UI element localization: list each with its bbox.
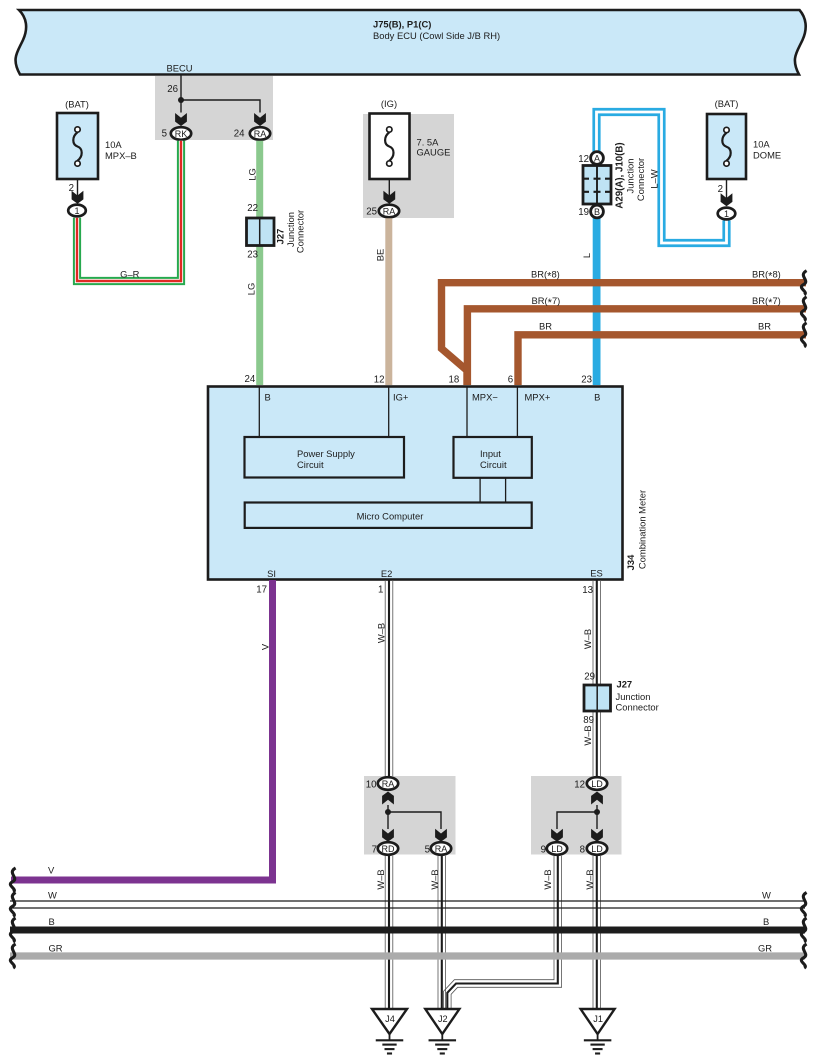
internal wire MPX- to input circuit <box>466 387 468 437</box>
svg-text:24: 24 <box>245 374 256 385</box>
svg-text:89: 89 <box>583 715 594 726</box>
connector shading box left <box>364 776 456 855</box>
svg-text:BE: BE <box>375 249 386 262</box>
svg-text:MPX−: MPX− <box>472 391 498 402</box>
junction dot <box>178 97 184 103</box>
wire G-R from terminal 1 to RK <box>77 141 181 281</box>
svg-text:29: 29 <box>584 672 595 683</box>
break symbol BR(*8) <box>801 271 806 295</box>
ground point J1 <box>581 1009 615 1034</box>
svg-text:B: B <box>594 207 600 217</box>
svg-text:B: B <box>594 391 600 402</box>
svg-text:1: 1 <box>74 206 79 216</box>
wire W-B 8LD to J1 <box>592 856 594 1008</box>
svg-text:(BAT): (BAT) <box>65 99 89 110</box>
wire W-B 5RA to J2 <box>437 856 439 1008</box>
terminal LD pin 9 <box>547 842 567 855</box>
arrow out of LD <box>591 792 603 805</box>
ground symbol J2 <box>441 1034 443 1040</box>
ground point J2 <box>425 1009 459 1034</box>
arrow into RK <box>175 113 187 126</box>
terminal LD pin 12 <box>587 777 607 790</box>
svg-text:1: 1 <box>378 585 383 596</box>
arrow into LD9 <box>551 829 563 842</box>
junction connector A29(A),J10(B) <box>583 166 611 205</box>
internal wires input to micro computer <box>480 478 506 503</box>
internal wire pin24 to power supply <box>258 387 260 437</box>
arrow into LD8 <box>591 829 603 842</box>
connector shading box IG fuse <box>363 114 454 218</box>
svg-text:10: 10 <box>366 779 377 790</box>
svg-text:Input: Input <box>480 448 501 459</box>
wire branch to LD pin9 <box>557 812 597 829</box>
svg-text:W–B: W–B <box>429 869 440 889</box>
wire L-W loop <box>597 112 727 243</box>
arrow into RA <box>254 113 266 126</box>
svg-text:Combination Meter: Combination Meter <box>637 490 648 569</box>
svg-text:LD: LD <box>591 779 603 789</box>
svg-text:22: 22 <box>247 203 258 214</box>
svg-text:J27: J27 <box>275 229 286 245</box>
svg-text:J75(B), P1(C): J75(B), P1(C) <box>373 19 431 30</box>
bus wire B <box>10 927 805 934</box>
terminal A pin 12 <box>591 152 604 165</box>
svg-text:W: W <box>762 890 771 901</box>
ground point J4 <box>372 1009 407 1034</box>
terminal 1 <box>68 205 86 217</box>
svg-text:Body ECU (Cowl Side J/B RH): Body ECU (Cowl Side J/B RH) <box>373 30 500 41</box>
svg-text:SI: SI <box>267 568 276 579</box>
arrow into terminal 1 <box>72 191 84 204</box>
svg-text:23: 23 <box>247 250 258 261</box>
svg-text:LD: LD <box>551 844 563 854</box>
wire branch to RA <box>181 100 260 113</box>
break symbol BR(*7) <box>801 297 806 321</box>
terminal B pin 19 <box>591 205 604 218</box>
svg-text:ES: ES <box>590 568 603 579</box>
svg-text:LG: LG <box>246 283 257 296</box>
svg-text:Connector: Connector <box>635 158 646 201</box>
arrow into RD <box>382 829 394 842</box>
svg-text:7: 7 <box>372 844 377 855</box>
connector shading box right <box>531 776 622 855</box>
wire W-B 9LD jog to J2 <box>444 856 555 1009</box>
arrow into RA5 <box>435 829 447 842</box>
fuse pin 2 lead <box>726 179 728 199</box>
svg-text:12: 12 <box>578 154 589 165</box>
svg-text:LG: LG <box>247 168 258 181</box>
svg-text:10A: 10A <box>105 139 122 150</box>
bus wire GR <box>10 952 805 959</box>
arrow into RA pin 25 <box>383 191 395 204</box>
fuse lead to RA <box>388 179 390 197</box>
terminal RA pin 24 <box>250 127 270 140</box>
bus wire W <box>10 900 805 902</box>
svg-text:J4: J4 <box>385 1014 395 1024</box>
svg-text:2: 2 <box>718 184 723 195</box>
svg-text:W–B: W–B <box>375 869 386 889</box>
svg-text:B: B <box>763 916 769 927</box>
svg-text:J27: J27 <box>617 679 633 690</box>
svg-text:17: 17 <box>256 585 267 596</box>
svg-text:BR: BR <box>539 321 552 332</box>
junction connector J27 (top) <box>247 218 275 246</box>
terminal RA pin 5 <box>431 842 451 855</box>
wire BR(*7) <box>467 309 806 385</box>
junction connector J27 (lower) <box>584 685 611 711</box>
svg-text:DOME: DOME <box>753 150 781 161</box>
svg-text:GR: GR <box>758 943 772 954</box>
svg-text:10A: 10A <box>753 139 770 150</box>
arrow out of RA <box>382 792 394 805</box>
svg-text:5: 5 <box>425 844 430 855</box>
svg-text:L: L <box>581 253 592 258</box>
svg-text:RK: RK <box>175 129 188 139</box>
junction dot <box>385 809 391 815</box>
svg-text:V: V <box>260 643 271 650</box>
svg-text:8: 8 <box>580 844 585 855</box>
terminal RA pin 25 <box>379 205 399 218</box>
terminal RD pin 7 <box>378 842 398 855</box>
svg-text:23: 23 <box>581 375 592 386</box>
internal wire MPX+ to input circuit <box>516 387 518 437</box>
arrow into terminal 1 <box>721 193 733 206</box>
svg-text:12: 12 <box>574 779 585 790</box>
svg-text:B: B <box>49 916 55 927</box>
svg-text:GAUGE: GAUGE <box>417 147 451 158</box>
svg-text:W: W <box>48 890 57 901</box>
fuse pin 2 lead <box>77 179 79 197</box>
svg-text:Junction: Junction <box>625 159 636 194</box>
svg-text:12: 12 <box>374 374 385 385</box>
power supply circuit box <box>245 437 405 478</box>
svg-text:IG+: IG+ <box>393 391 409 402</box>
svg-text:LD: LD <box>591 844 603 854</box>
ground symbol J1 <box>597 1034 599 1040</box>
svg-text:5: 5 <box>162 129 167 140</box>
wire BR <box>518 335 806 385</box>
svg-text:1: 1 <box>724 209 729 219</box>
wire V from SI pin 17 <box>11 580 273 880</box>
svg-text:25: 25 <box>366 206 377 217</box>
svg-text:24: 24 <box>234 129 245 140</box>
wire branch to RK <box>180 100 182 113</box>
svg-text:GR: GR <box>49 943 63 954</box>
svg-text:W–B: W–B <box>582 629 593 649</box>
svg-text:26: 26 <box>167 84 178 95</box>
break symbol BR <box>801 323 806 347</box>
terminal RA pin 10 <box>378 777 398 790</box>
svg-text:Connector: Connector <box>616 702 659 713</box>
svg-text:BR: BR <box>758 321 771 332</box>
break symbols GR <box>10 944 15 968</box>
terminal LD pin 8 <box>587 842 607 855</box>
junction dot <box>594 809 600 815</box>
svg-text:Circuit: Circuit <box>297 459 324 470</box>
svg-text:(IG): (IG) <box>381 98 397 109</box>
svg-text:(BAT): (BAT) <box>715 98 739 109</box>
svg-text:W–B: W–B <box>584 869 595 889</box>
wire L from B to meter <box>593 218 601 385</box>
svg-text:RA: RA <box>435 844 448 854</box>
svg-text:L–W: L–W <box>649 169 660 188</box>
wire W-B from E2 pin 1 <box>384 580 386 776</box>
svg-text:Junction: Junction <box>616 691 651 702</box>
svg-text:G–R: G–R <box>120 268 140 279</box>
svg-text:Circuit: Circuit <box>480 459 507 470</box>
svg-text:RD: RD <box>382 844 395 854</box>
break symbols W <box>10 893 15 917</box>
svg-text:18: 18 <box>449 374 460 385</box>
svg-text:19: 19 <box>578 207 589 218</box>
svg-text:E2: E2 <box>381 568 392 579</box>
combination meter J34 box <box>208 387 623 580</box>
wire to junction <box>596 805 598 829</box>
break symbols B <box>10 918 15 942</box>
wire to junction <box>387 805 389 829</box>
ground symbol J4 <box>389 1034 391 1040</box>
wire LG from RA pin24 to meter <box>256 141 263 385</box>
svg-text:A: A <box>594 153 600 163</box>
terminal RK pin 5 <box>171 127 191 140</box>
svg-text:MPX–B: MPX–B <box>105 150 137 161</box>
svg-text:W–B: W–B <box>542 869 553 889</box>
wire BE to meter IG+ <box>385 218 392 385</box>
svg-text:RA: RA <box>383 206 396 216</box>
input circuit box <box>454 437 532 478</box>
svg-text:V: V <box>48 865 55 876</box>
svg-text:13: 13 <box>582 585 593 596</box>
wire W-B 7RD to J4 <box>384 856 386 1008</box>
wire W-B from ES pin 13 <box>592 580 594 776</box>
svg-text:9: 9 <box>541 844 546 855</box>
svg-text:BECU: BECU <box>167 63 193 74</box>
svg-text:RA: RA <box>382 779 395 789</box>
svg-text:W–B: W–B <box>376 623 387 643</box>
svg-text:J34: J34 <box>625 554 636 570</box>
wire BECU pin 26 <box>180 75 182 101</box>
terminal 1 <box>718 208 736 220</box>
wire BR(*8) <box>442 283 807 385</box>
svg-text:Connector: Connector <box>295 210 306 253</box>
svg-text:J1: J1 <box>593 1014 603 1024</box>
svg-text:6: 6 <box>508 374 513 385</box>
connector shading box BECU <box>155 76 273 140</box>
break symbol V <box>10 868 15 892</box>
Body ECU bus bar J75(B),P1(C) <box>16 10 806 75</box>
svg-text:W–B: W–B <box>582 725 593 745</box>
internal wire IG+ to power supply <box>388 387 390 437</box>
svg-text:RA: RA <box>254 129 267 139</box>
wire branch to RA pin5 <box>388 812 441 829</box>
svg-text:MPX+: MPX+ <box>525 391 551 402</box>
svg-text:Power Supply: Power Supply <box>297 448 355 459</box>
svg-text:B: B <box>265 391 271 402</box>
svg-text:Micro Computer: Micro Computer <box>357 511 424 522</box>
micro computer box <box>245 503 532 528</box>
svg-text:J2: J2 <box>438 1014 448 1024</box>
